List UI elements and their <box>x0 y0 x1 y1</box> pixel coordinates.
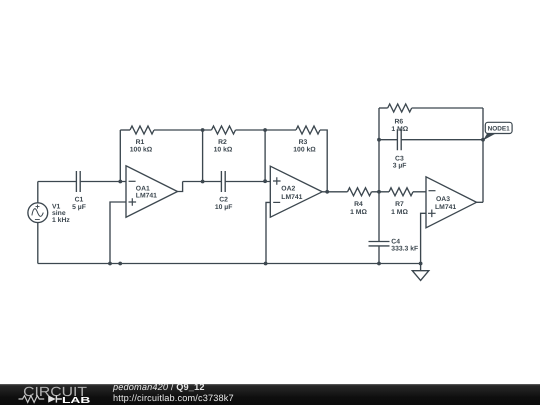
capacitor C4 <box>369 242 390 246</box>
wire junction down to C2 row <box>202 130 204 182</box>
node R1/R2 junction <box>201 128 205 132</box>
wire R1 to R2 <box>154 129 212 131</box>
label R6 <box>391 118 408 133</box>
wire R2 to R3 <box>236 129 297 131</box>
wire input row to C1 <box>38 181 77 183</box>
node C4 bottom <box>377 262 381 266</box>
wire OA1 output to C2 <box>183 181 222 183</box>
footer bar <box>0 384 540 405</box>
capacitor C2 <box>221 171 225 192</box>
wire R4 to node <box>372 191 390 193</box>
label R2 <box>214 139 233 154</box>
op-amp OA1 <box>126 166 178 218</box>
resistor R1 <box>130 126 154 134</box>
wire C1 to OA1 minus <box>80 181 126 183</box>
label R3 <box>293 139 316 154</box>
svg-text:100 kΩ: 100 kΩ <box>293 147 316 154</box>
capacitor C1 <box>76 171 80 192</box>
node flag NODE1 <box>483 122 512 140</box>
svg-text:10 kΩ: 10 kΩ <box>214 147 233 154</box>
voltage source V1 <box>28 203 48 223</box>
svg-text:1 MΩ: 1 MΩ <box>391 209 408 216</box>
svg-text:1 MΩ: 1 MΩ <box>391 126 408 133</box>
svg-text:NODE1: NODE1 <box>488 125 510 132</box>
node C3 row left <box>377 138 381 142</box>
resistor R4 <box>348 188 372 196</box>
svg-text:C2: C2 <box>219 196 228 203</box>
label C3 <box>393 155 407 169</box>
wire junction down to OA2 plus <box>264 130 266 181</box>
svg-text:R1: R1 <box>136 139 145 146</box>
wire OA3 plus return <box>421 213 426 263</box>
wire left feedback vertical <box>378 108 380 241</box>
wire R1 left lead <box>120 129 130 131</box>
node OA2 output junction <box>325 190 329 194</box>
wire C3 to right vertical <box>401 139 483 141</box>
footer line 2 <box>113 394 234 403</box>
wire R6 left lead <box>379 107 388 109</box>
svg-text:LAB: LAB <box>62 395 90 405</box>
svg-text:C1: C1 <box>75 196 84 203</box>
svg-text:1 kHz: 1 kHz <box>52 217 70 224</box>
label OA2 <box>281 185 302 201</box>
capacitor C3 <box>397 129 401 150</box>
label OA3 <box>435 196 456 211</box>
resistor R3 <box>296 126 320 134</box>
node OA2 plus junction <box>263 179 267 183</box>
wire OA2 output <box>322 191 347 193</box>
svg-text:5 µF: 5 µF <box>72 204 86 211</box>
svg-text:LM741: LM741 <box>281 194 302 201</box>
node center junction <box>377 190 381 194</box>
label R1 <box>130 139 153 154</box>
svg-text:OA1: OA1 <box>136 185 150 192</box>
svg-text:C3: C3 <box>395 155 404 162</box>
node OA2 minus return <box>264 262 268 266</box>
wire OA2 minus return <box>266 202 270 263</box>
svg-text:C4: C4 <box>391 238 400 245</box>
wire OA1 output jog <box>178 182 183 192</box>
svg-text:OA3: OA3 <box>436 196 450 203</box>
svg-text:333.3 kF: 333.3 kF <box>391 246 418 253</box>
svg-text:R4: R4 <box>354 201 363 208</box>
resistor R6 <box>388 104 412 112</box>
wire C3 row left <box>379 139 397 141</box>
node R2/R3 junction <box>263 128 267 132</box>
svg-text:3 µF: 3 µF <box>393 162 407 169</box>
svg-text:R3: R3 <box>299 139 308 146</box>
wire R6 to right vertical <box>412 107 483 109</box>
circuitlab logo <box>0 384 110 405</box>
node bottom OA1 return <box>108 262 112 266</box>
label R4 <box>350 201 367 216</box>
op-amp OA2 <box>270 166 322 217</box>
node NODE1 junction <box>481 138 485 142</box>
wire R1 left vertical <box>119 130 121 182</box>
svg-text:OA2: OA2 <box>281 185 295 192</box>
wire OA1 plus return <box>110 202 126 264</box>
label C2 <box>215 196 233 211</box>
wire V1 top stub <box>37 182 39 203</box>
svg-text:10 µF: 10 µF <box>215 204 233 211</box>
wire C2 to OA2 plus <box>225 181 270 183</box>
wire bottom rail <box>38 263 421 265</box>
label V1 <box>52 203 70 224</box>
resistor R7 <box>389 188 413 196</box>
wire right feedback vertical <box>482 108 484 202</box>
node bottom rail dot <box>118 262 122 266</box>
wire C4 bottom stub <box>378 246 380 264</box>
node C2 row junction <box>201 180 205 184</box>
node ground junction <box>419 262 423 266</box>
footer line 1 <box>113 383 205 392</box>
svg-text:R6: R6 <box>394 118 403 125</box>
wire V1 bottom stub <box>37 223 39 264</box>
wire R3 right to OA2 output <box>320 130 327 192</box>
svg-text:100 kΩ: 100 kΩ <box>130 147 153 154</box>
svg-text:R7: R7 <box>395 201 404 208</box>
node at OA1 inverting input <box>118 180 122 184</box>
label C1 <box>72 196 86 211</box>
svg-text:LM741: LM741 <box>136 193 157 200</box>
label R7 <box>391 201 408 216</box>
op-amp OA3 <box>426 177 477 228</box>
svg-text:R2: R2 <box>218 139 227 146</box>
wire OA3 output <box>477 201 484 203</box>
label C4 <box>391 238 418 252</box>
resistor R2 <box>212 126 236 134</box>
label OA1 <box>136 185 157 199</box>
svg-text:LM741: LM741 <box>435 204 456 211</box>
ground <box>412 264 429 281</box>
wire R7 to OA3 minus <box>413 191 426 193</box>
svg-text:1 MΩ: 1 MΩ <box>350 209 367 216</box>
